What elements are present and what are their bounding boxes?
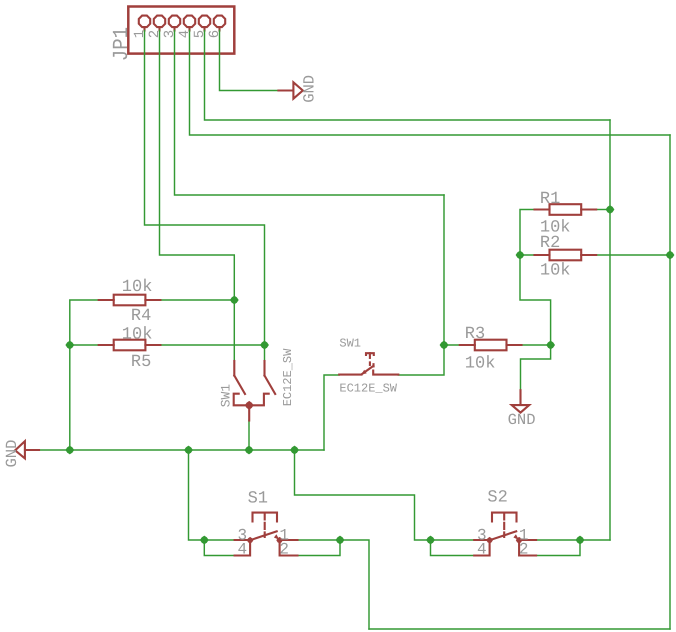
svg-text:10k: 10k bbox=[122, 326, 153, 345]
switch S2 pin1 lead bbox=[519, 539, 536, 541]
junction R1 right bbox=[606, 205, 615, 214]
junction R3 right bbox=[546, 341, 555, 350]
ground GND top triangle bbox=[293, 82, 302, 98]
rotary switch SW1 right seat bbox=[249, 394, 269, 406]
resistor R2 leads bbox=[535, 254, 597, 256]
svg-text:S1: S1 bbox=[248, 490, 268, 509]
wire pin5 horizontal to right column A bbox=[205, 31, 611, 121]
junction R3 left bbox=[440, 341, 449, 350]
junction bus S2 bbox=[290, 446, 299, 455]
JP1 pin 3 circle bbox=[169, 16, 180, 28]
junction S2 left bbox=[426, 536, 435, 545]
resistor R3 body bbox=[475, 340, 507, 351]
wire bottom row bbox=[369, 628, 670, 630]
svg-text:JP1: JP1 bbox=[109, 27, 134, 61]
connector JP1 frame bbox=[128, 7, 234, 54]
rotary switch SW1 left lever bbox=[234, 376, 245, 395]
resistor R3 leads bbox=[460, 344, 522, 346]
svg-text:5: 5 bbox=[192, 30, 208, 38]
JP1 pin 5 circle bbox=[199, 16, 210, 28]
wire S1 pin4 loop bbox=[204, 540, 234, 556]
rotary switch SW1 right lever bbox=[265, 376, 276, 395]
switch S1 pin4 lead bbox=[235, 540, 251, 555]
svg-text:GND: GND bbox=[3, 440, 21, 468]
wire right column B vertical bbox=[669, 135, 671, 629]
wire pin3 to R3 column bbox=[175, 31, 445, 196]
switch S1 contact A dot bbox=[247, 537, 254, 544]
switch S1 lever bbox=[250, 531, 277, 540]
svg-text:4: 4 bbox=[237, 541, 247, 559]
svg-text:10k: 10k bbox=[465, 354, 496, 373]
junction R2 left bbox=[516, 251, 525, 260]
switch S2 pin2 lead bbox=[519, 540, 536, 555]
svg-text:S2: S2 bbox=[487, 489, 507, 508]
svg-text:GND: GND bbox=[508, 411, 536, 429]
svg-text:R5: R5 bbox=[131, 353, 151, 372]
resistor R2 body bbox=[550, 250, 582, 261]
switch S1 button bracket bbox=[253, 513, 278, 522]
rotary switch SW1 right pin bbox=[263, 361, 265, 376]
wire GND bus bbox=[39, 449, 324, 451]
wire bus riser to SW1 pushbutton left bbox=[324, 375, 339, 450]
rotary switch SW1 common stem bbox=[248, 405, 250, 420]
JP1 pin stubs bbox=[145, 28, 220, 31]
switch S2 arrow bbox=[513, 534, 519, 540]
wire pin2 to rotary left bbox=[160, 31, 235, 362]
pushbutton SW1 actuator stem bbox=[369, 353, 371, 358]
svg-text:2: 2 bbox=[279, 541, 289, 559]
wire S2 pin1 to column A bbox=[536, 539, 610, 541]
ground GND left triangle bbox=[15, 441, 25, 458]
svg-text:R3: R3 bbox=[465, 325, 485, 344]
svg-text:2: 2 bbox=[519, 541, 529, 559]
switch S2 contact B dot bbox=[516, 537, 523, 544]
wire R3 left lead bbox=[444, 344, 460, 346]
junction bus S1 bbox=[184, 446, 193, 455]
junction S2 right bbox=[576, 536, 585, 545]
svg-text:EC12E_SW: EC12E_SW bbox=[281, 348, 295, 406]
wire R3 right lead bbox=[520, 344, 551, 346]
switch S1 contact B dot bbox=[276, 537, 283, 544]
pushbutton SW1 actuator T bbox=[366, 353, 374, 355]
pushbutton SW1 actuator dash bbox=[369, 362, 371, 365]
junction bus rotary bbox=[245, 446, 254, 455]
wire rotary common to bus bbox=[248, 421, 250, 451]
junction rotary right / R5 bbox=[260, 341, 269, 350]
svg-text:1: 1 bbox=[132, 30, 148, 38]
wire R4 right bbox=[160, 299, 234, 301]
ground GND bottom triangle bbox=[512, 405, 530, 413]
wire S2 feed bbox=[295, 450, 475, 540]
wire R3 column vertical to SW1 pushbutton bbox=[398, 195, 444, 375]
switch S2 pin3 lead bbox=[474, 539, 489, 541]
ground GND left pin bbox=[25, 449, 39, 451]
junction R2 right bbox=[666, 251, 675, 260]
switch S2 pin4 lead bbox=[474, 540, 489, 555]
switch S1 pin3 lead bbox=[235, 539, 251, 541]
svg-text:R4: R4 bbox=[131, 307, 151, 326]
wire R1 right bbox=[596, 209, 610, 211]
switch S1 pin2 lead bbox=[280, 540, 298, 555]
switch S2 contact A dot bbox=[486, 537, 493, 544]
junction S1 right bbox=[336, 536, 345, 545]
wire R4 left column bbox=[70, 300, 99, 450]
switch S2 lever bbox=[490, 531, 517, 540]
wire R2 right bbox=[596, 254, 670, 256]
resistor R5 leads bbox=[99, 344, 161, 346]
pushbutton SW1 left lead bbox=[339, 374, 361, 376]
junction S1 left bbox=[200, 536, 209, 545]
wire S1 feed bbox=[189, 450, 235, 540]
JP1 pin 2 circle bbox=[154, 16, 165, 28]
pushbutton SW1 right contact bbox=[373, 371, 398, 375]
JP1 pin 4 circle bbox=[184, 16, 195, 28]
rotary switch SW1 left seat bbox=[234, 394, 250, 406]
rotary switch SW1 left pin bbox=[233, 361, 235, 376]
resistor R1 body bbox=[550, 204, 582, 215]
ground GND bottom pin bbox=[519, 390, 521, 404]
wire S1 pin2 loop bbox=[298, 540, 341, 556]
resistor R4 body bbox=[114, 295, 146, 306]
svg-text:2: 2 bbox=[147, 30, 163, 38]
switch S2 button bracket bbox=[492, 513, 517, 522]
wire S2 pin4 loop bbox=[431, 540, 475, 556]
wire pin1 to rotary right bbox=[145, 31, 265, 362]
svg-text:3: 3 bbox=[162, 30, 178, 38]
resistor R5 body bbox=[114, 340, 146, 351]
svg-text:SW1: SW1 bbox=[218, 384, 233, 408]
switch S1 arrow bbox=[274, 534, 280, 540]
wire R2 left lead bbox=[520, 254, 535, 256]
pushbutton SW1 lever arrowhead bbox=[361, 370, 366, 375]
svg-text:4: 4 bbox=[477, 541, 487, 559]
switch S1 pin1 lead bbox=[280, 539, 298, 541]
svg-text:10k: 10k bbox=[540, 262, 571, 281]
wire R1 left to R2 left bbox=[520, 210, 535, 256]
wire R2 left jog down to R3 right bbox=[520, 255, 551, 345]
ground GND top pin bbox=[278, 89, 293, 91]
svg-text:10k: 10k bbox=[122, 278, 153, 297]
svg-text:GND: GND bbox=[301, 75, 319, 103]
wire pin6 to GND top bbox=[220, 31, 279, 91]
pushbutton SW1 lever top tick bbox=[372, 364, 374, 366]
wire R5 left lead bbox=[70, 344, 99, 346]
pushbutton SW1 lever bbox=[362, 366, 373, 374]
svg-text:4: 4 bbox=[177, 30, 193, 38]
JP1 pin 1 circle bbox=[139, 16, 150, 28]
junction R5 left bbox=[65, 341, 74, 350]
JP1 pin 6 circle bbox=[214, 16, 225, 28]
svg-text:EC12E_SW: EC12E_SW bbox=[339, 381, 397, 395]
wire pin4 horizontal to right column B bbox=[190, 31, 671, 136]
junction R4 right bbox=[230, 296, 239, 305]
wire right column A vertical bbox=[609, 120, 611, 540]
svg-text:R1: R1 bbox=[540, 190, 560, 209]
switch S1 actuator dashed bbox=[264, 513, 266, 537]
resistor R1 leads bbox=[535, 208, 597, 210]
junction bus left bbox=[65, 446, 74, 455]
svg-text:SW1: SW1 bbox=[339, 336, 361, 350]
rotary switch SW1 common dot bbox=[245, 401, 254, 410]
svg-text:R2: R2 bbox=[540, 234, 560, 253]
resistor R4 leads bbox=[99, 299, 161, 301]
wire R5 right bbox=[160, 344, 264, 346]
wire S2 pin2 loop bbox=[536, 540, 580, 556]
wire S1 right drop bbox=[298, 540, 370, 629]
wire to GND bottom bbox=[521, 345, 551, 390]
svg-text:6: 6 bbox=[207, 30, 223, 38]
switch S2 actuator dashed bbox=[503, 513, 505, 537]
